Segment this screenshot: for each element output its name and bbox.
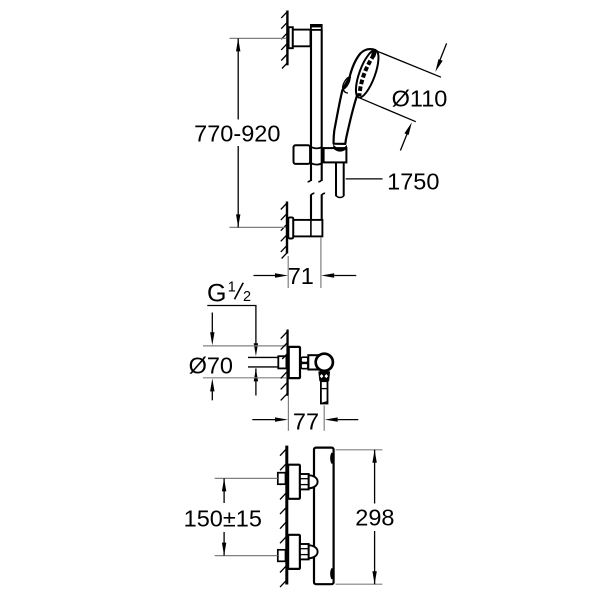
holder clamp edges across rail: [311, 147, 322, 165]
nozzle markings along face: [359, 48, 377, 96]
thermostat body: [314, 448, 334, 585]
pipe connection nut: [278, 356, 286, 368]
svg-text:Ø70: Ø70: [189, 352, 233, 378]
svg-text:77: 77: [293, 408, 319, 434]
shower hose: [336, 163, 344, 198]
leader G 1/2: [207, 306, 258, 396]
dimension 71 extension line left: [287, 256, 289, 288]
wall (bottom assembly): [280, 446, 288, 587]
ball joint: [316, 354, 333, 371]
dimension 770-920 line and arrows: [236, 38, 240, 227]
spray-mode button on head back: [341, 76, 351, 93]
top union: bolt head: [278, 473, 286, 485]
label G 1/2: [207, 280, 251, 308]
rail holder knob (left): [294, 145, 311, 164]
connector lugs: [301, 357, 308, 368]
rail top end cap: [311, 25, 322, 30]
top union: nut: [300, 474, 309, 489]
svg-text:71: 71: [288, 263, 314, 289]
dimension 770-920 extension line bottom: [230, 226, 286, 228]
dimension Ø70 line and arrows: [210, 313, 214, 401]
supply pipe behind wall: [248, 357, 278, 367]
top bracket arm: [293, 30, 311, 47]
svg-text:298: 298: [355, 505, 394, 531]
wall (top bracket): [281, 11, 288, 69]
bottom union: dome cap: [309, 545, 318, 558]
svg-text:150±15: 150±15: [184, 506, 262, 532]
outlet tube: [321, 381, 328, 403]
svg-text:1: 1: [228, 280, 236, 296]
knurled nut below ball: [318, 371, 330, 381]
escutcheon (middle valve): [289, 347, 300, 378]
dimension 77 extension lines: [287, 396, 289, 431]
bottom bracket arm: [293, 220, 322, 237]
svg-text:770-920: 770-920: [194, 120, 280, 146]
wall (middle valve): [281, 330, 289, 401]
bottom union: nut: [300, 544, 309, 559]
dimension 71 line and arrows: [254, 273, 357, 277]
bottom union: bolt head: [278, 550, 286, 562]
dimension 298 extension lines: [336, 449, 383, 451]
dimension 77 line and arrows: [252, 417, 358, 421]
valve body cylinder: [308, 355, 318, 369]
handle seat shadow (dark meniscus): [333, 144, 347, 151]
top union: dome cap: [309, 475, 318, 488]
rail (vertical bar): [308, 30, 326, 222]
dimension Ø110 arrow upper: [435, 43, 446, 72]
shower head body and handle: [334, 49, 376, 144]
svg-text:Ø110: Ø110: [392, 85, 448, 111]
knob grip mark bottom: [330, 568, 333, 579]
top bracket flange: [289, 27, 293, 48]
knob grip mark top: [330, 453, 333, 464]
dimension Ø110 extension line upper: [376, 51, 441, 77]
dimension 71 extension line right: [320, 237, 322, 288]
dimension 150±15 extension lines: [215, 477, 278, 479]
svg-text:2: 2: [243, 289, 251, 305]
leader line 1750: [346, 178, 383, 180]
top union: escutcheon: [288, 465, 300, 499]
wall (bottom bracket): [281, 202, 288, 259]
svg-text:1750: 1750: [387, 169, 439, 195]
dimension 298 line and arrows: [372, 450, 376, 584]
dimension Ø110 extension line lower: [359, 98, 416, 122]
dimension 150±15 line and arrows: [222, 478, 226, 555]
dimension Ø70 extension lines: [203, 345, 286, 347]
svg-text:G: G: [207, 280, 226, 308]
bottom union: escutcheon: [288, 535, 300, 569]
dimension Ø110 arrow lower: [400, 122, 412, 150]
dimension 770-920 extension line top: [230, 37, 286, 39]
holder cradle (right): [323, 148, 347, 162]
shower face plate (ellipse seen edge-on): [351, 48, 383, 100]
bottom bracket flange: [288, 217, 293, 238]
